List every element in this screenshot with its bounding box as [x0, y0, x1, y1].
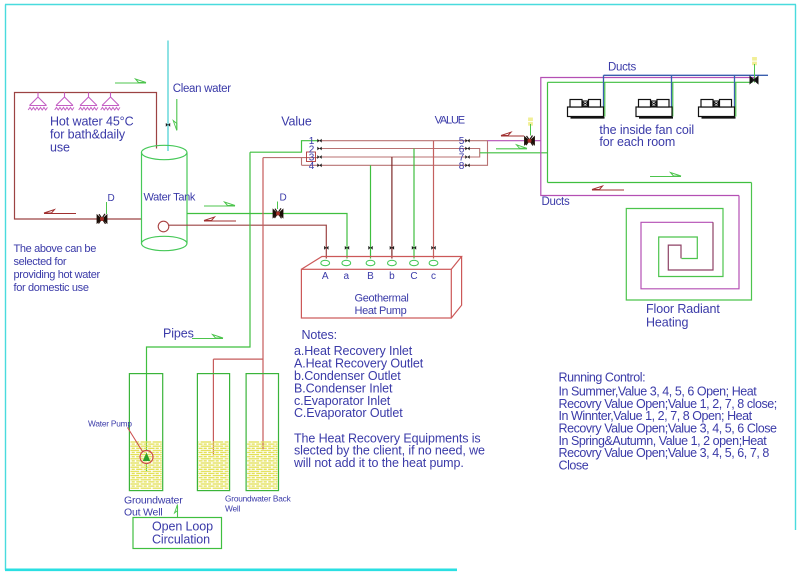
shower head 1 [28, 93, 47, 111]
floor radiant heating spiral inner maroon [668, 222, 713, 270]
svg-text:Open Loop: Open Loop [152, 520, 213, 534]
tick on clean water pipe [166, 123, 170, 127]
floor radiant heating spiral magenta [641, 196, 739, 289]
green up arrow to open loop box [177, 506, 179, 517]
svg-text:will not add it to the heat pu: will not add it to the heat pump. [293, 456, 464, 470]
open loop circulation box [133, 518, 222, 549]
svg-text:for domestic use: for domestic use [14, 282, 89, 294]
heat pump terminals [321, 260, 438, 265]
svg-text:VALUE: VALUE [435, 114, 465, 126]
pipe: magenta duct return [541, 78, 756, 196]
well 3 water hatch [247, 441, 277, 490]
svg-text:D: D [280, 193, 287, 204]
shower head 3 [79, 93, 98, 111]
flow arrow red near V3 [501, 135, 524, 137]
green drops to fan coils [605, 82, 736, 116]
well 1 water hatch [130, 441, 161, 490]
svg-text:4: 4 [309, 161, 315, 172]
pipe: green duct supply from bracket 6-7 [480, 82, 753, 182]
svg-text:Heat Pump: Heat Pump [355, 305, 407, 317]
svg-text:providing hot water: providing hot water [14, 269, 101, 281]
svg-text:Floor Radiant: Floor Radiant [646, 302, 720, 316]
manifold lines 1-4 to 5-8 [302, 141, 467, 166]
manifold ticks left [317, 139, 321, 143]
svg-text:for each room: for each room [599, 135, 675, 149]
svg-text:c: c [431, 271, 436, 282]
pipe: c line red [433, 141, 435, 259]
pipe: red return from wells (vertical x263) [213, 158, 263, 456]
red box around 3 [307, 152, 316, 162]
flow arrow red tank return [204, 217, 236, 221]
flow arrow green pipes [192, 335, 223, 339]
fan coil unit 3 [699, 100, 736, 118]
manifold left bracket green [250, 141, 318, 153]
svg-text:selected for: selected for [14, 256, 67, 268]
svg-text:Groundwater: Groundwater [124, 495, 183, 507]
svg-text:for bath&daily: for bath&daily [50, 128, 126, 142]
manifold left bracket red [263, 158, 318, 166]
manifold numbers right [459, 136, 465, 172]
pipe: clean water (cyan) [167, 41, 169, 152]
svg-text:Geothermal: Geothermal [355, 293, 409, 305]
tank outlet circle [158, 221, 169, 232]
svg-text:A: A [322, 271, 329, 282]
valve V4 top right with yellow actuator [752, 57, 757, 65]
svg-text:D: D [108, 193, 115, 204]
svg-text:Running Control:: Running Control: [559, 371, 646, 385]
pipe: green supply to wells (vertical x250) [147, 152, 251, 451]
svg-text:B: B [367, 271, 374, 282]
svg-text:Notes:: Notes: [302, 328, 338, 342]
ticks on heat pump terminal pipes [324, 246, 328, 250]
manifold ticks right [465, 139, 469, 143]
flow arrow green top [115, 79, 146, 83]
water pump [140, 451, 153, 464]
pipe: tank to terminal a (green) [187, 214, 347, 259]
floor radiant heating spiral green [626, 183, 751, 301]
manifold right bracket 6-7 [467, 149, 480, 158]
well 1 groundwater out [129, 374, 162, 491]
valve D1 [106, 202, 108, 214]
svg-text:Heating: Heating [646, 315, 689, 329]
flow arrow green near V3 [496, 145, 527, 149]
fan coil unit 2 [636, 100, 673, 118]
manifold right bracket 5-8 [467, 141, 488, 166]
terminal labels [322, 271, 436, 282]
svg-text:Clean water: Clean water [173, 83, 232, 95]
water tank [141, 145, 187, 250]
flow arrow green tank out [204, 202, 235, 206]
pipe: tank circle to terminal A (maroon) [169, 225, 326, 258]
flow arrow red shower return [44, 210, 76, 214]
svg-text:Well: Well [225, 504, 241, 514]
svg-text:8: 8 [459, 161, 465, 172]
svg-text:Ducts: Ducts [542, 196, 570, 208]
svg-text:Out Well: Out Well [124, 507, 162, 519]
svg-text:C: C [410, 271, 417, 282]
svg-text:use: use [50, 141, 70, 155]
svg-text:Water Pump: Water Pump [88, 419, 132, 429]
svg-text:Ducts: Ducts [608, 61, 636, 73]
svg-text:Water Tank: Water Tank [144, 192, 196, 204]
fan coil unit 1 [568, 100, 605, 118]
svg-text:Circulation: Circulation [152, 533, 210, 547]
pipe: hot water shower loop (maroon) [15, 93, 157, 220]
pipe: C line green [413, 149, 415, 259]
shower head 4 [101, 93, 120, 111]
svg-text:C.Evaporator Outlet: C.Evaporator Outlet [294, 406, 403, 420]
svg-text:a: a [344, 271, 350, 282]
svg-text:Groundwater Back: Groundwater Back [225, 494, 292, 504]
pipe: blue duct line [604, 75, 769, 107]
valve D2 [277, 202, 279, 210]
manifold numbers left [309, 136, 315, 172]
svg-text:Recovry Value Open;Value 3, 4,: Recovry Value Open;Value 3, 4, 5, 6, 7, … [559, 446, 770, 460]
well 3 [246, 374, 278, 491]
flow arrow red ducts [592, 186, 624, 190]
svg-text:Hot water 45°C: Hot water 45°C [50, 114, 134, 128]
svg-text:Close: Close [559, 459, 589, 473]
svg-text:The above can be: The above can be [14, 243, 97, 255]
geothermal heat pump box [301, 257, 461, 319]
svg-text:Value: Value [281, 114, 312, 128]
pipe: B line green [370, 165, 372, 258]
green down arrow clean water [176, 99, 178, 130]
svg-text:Pipes: Pipes [163, 327, 194, 341]
valve V3 with yellow actuator [528, 118, 533, 126]
well 2 [197, 374, 229, 491]
magenta line through valve V3 [488, 140, 541, 142]
svg-text:b: b [389, 271, 395, 282]
flow arrow green ducts [650, 173, 681, 177]
pipe: b line dark red [391, 157, 393, 259]
shower head 2 [55, 93, 74, 111]
well 2 water hatch [198, 441, 228, 490]
